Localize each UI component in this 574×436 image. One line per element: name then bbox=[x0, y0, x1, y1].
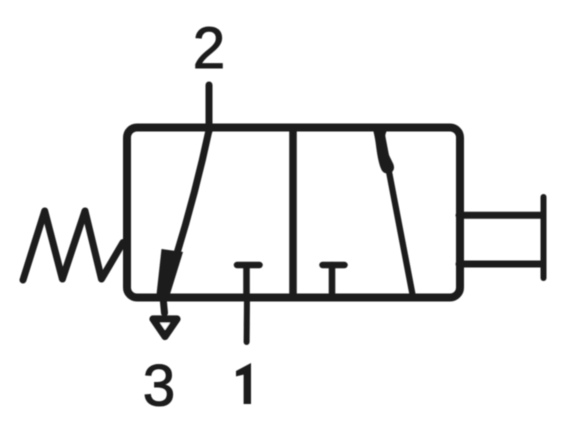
svg-text:3: 3 bbox=[143, 354, 175, 419]
svg-text:2: 2 bbox=[193, 16, 225, 81]
